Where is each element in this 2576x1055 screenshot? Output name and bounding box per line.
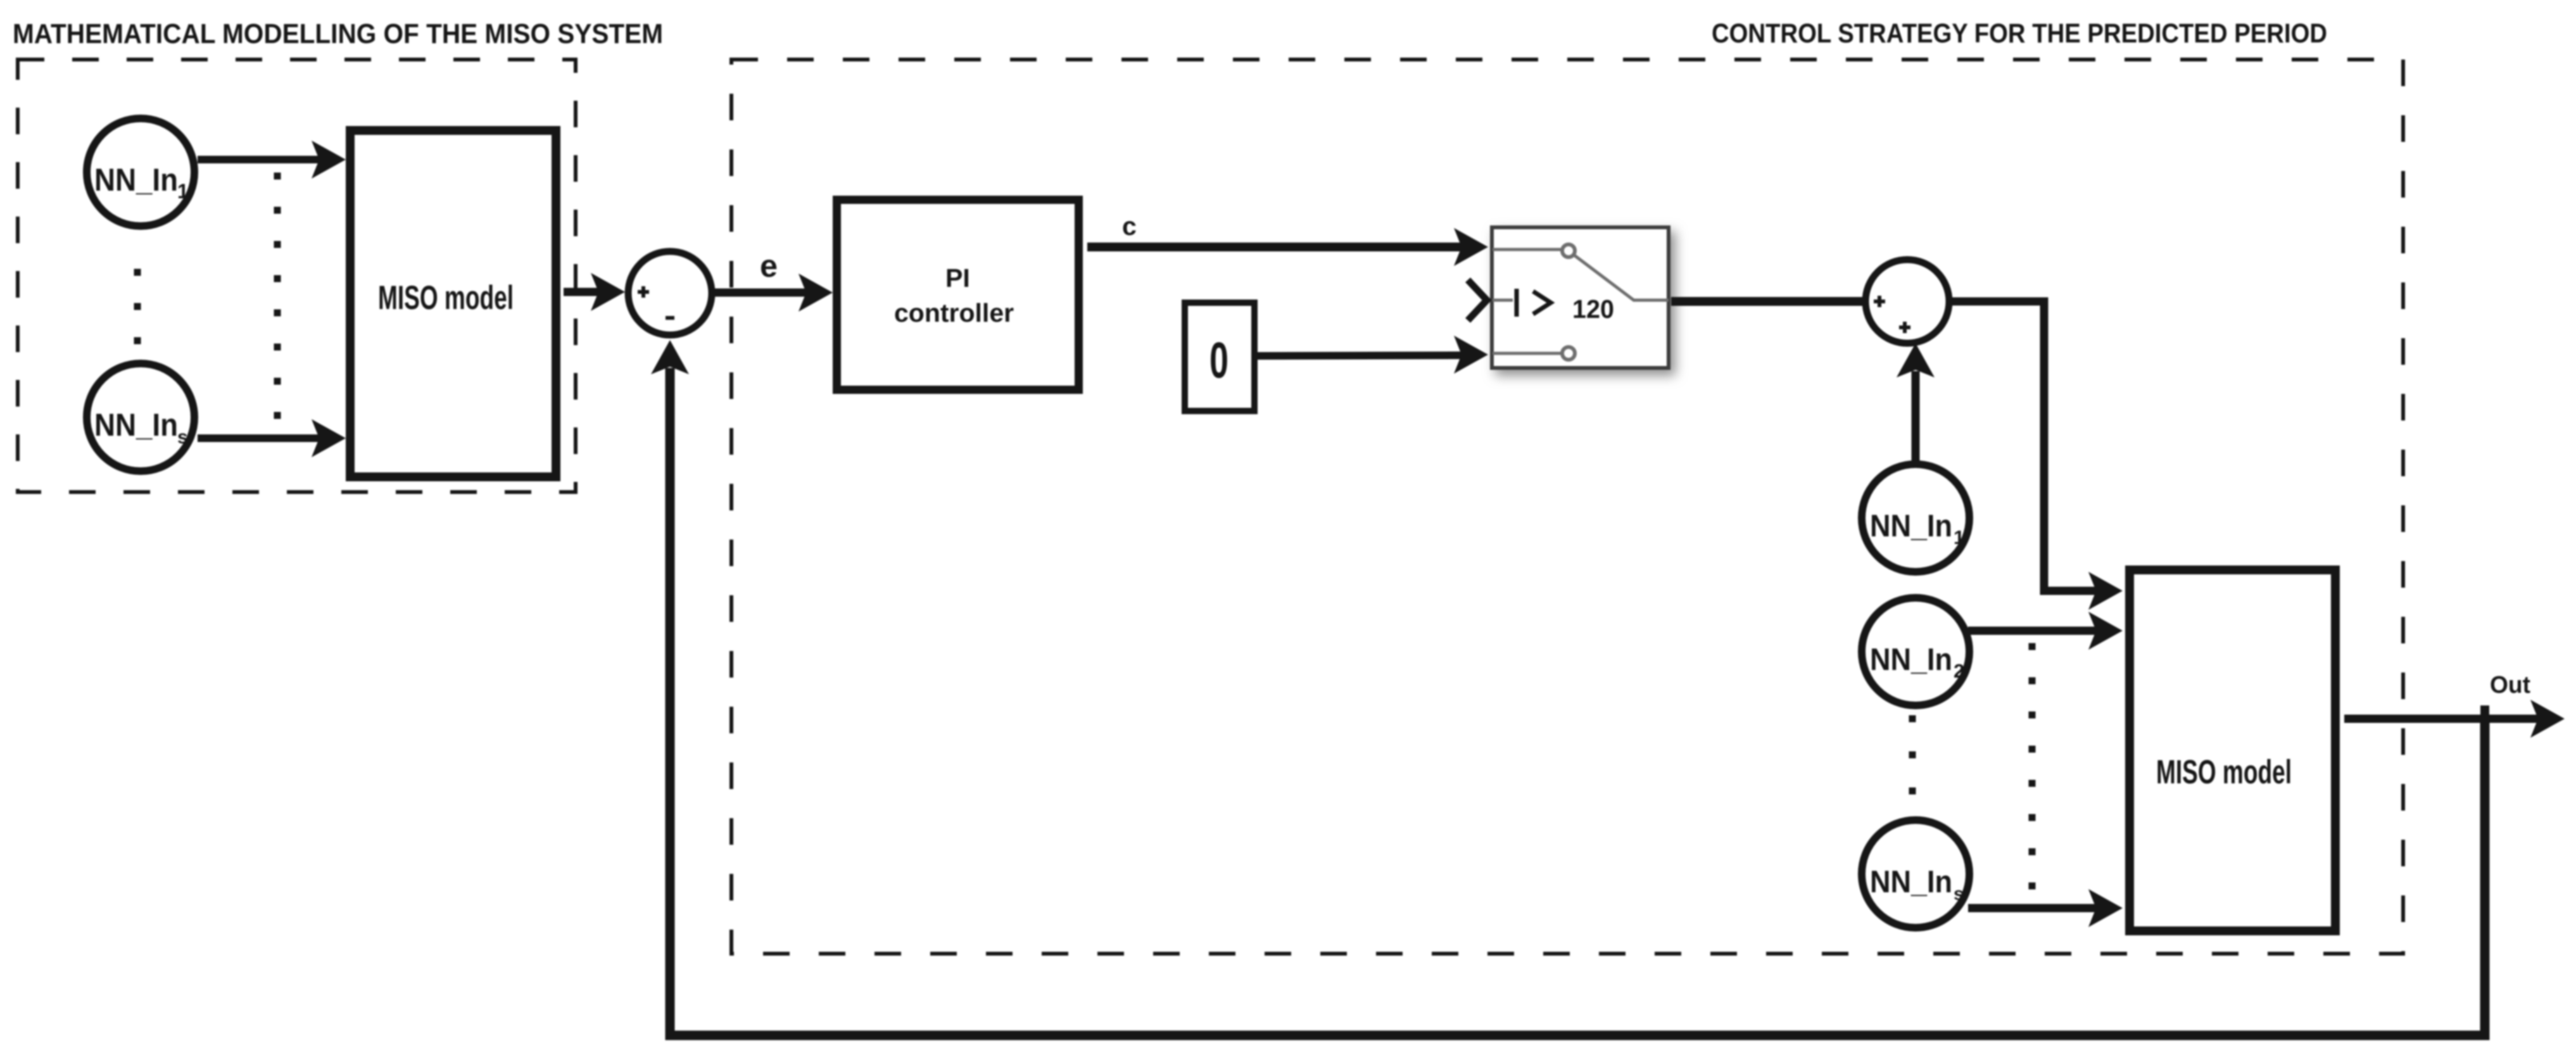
svg-text:MATHEMATICAL MODELLING OF THE: MATHEMATICAL MODELLING OF THE MISO SYSTE… bbox=[13, 18, 663, 49]
wire: summing junction 2 output to MISO model (right) input 1 bbox=[1949, 301, 2104, 591]
wire c: PI controller to switch input 1 bbox=[1087, 243, 1469, 251]
switch greater-than symbol bbox=[1533, 291, 1551, 314]
switch port line input 1 bbox=[1493, 248, 1562, 251]
dashed boundary box: control strategy subsystem bbox=[731, 60, 2403, 954]
block: PI controller bbox=[837, 200, 1079, 390]
node NN_Ins (left input circle) bbox=[87, 363, 194, 471]
switch control stub bbox=[1493, 299, 1513, 302]
svg-text:MISO model: MISO model bbox=[2156, 754, 2292, 791]
switch control chevron bbox=[1468, 280, 1487, 320]
svg-text:c: c bbox=[1122, 212, 1137, 241]
svg-text:0: 0 bbox=[1209, 332, 1228, 388]
wire e: summing junction 1 to PI controller bbox=[712, 289, 814, 297]
switch port knob input 3 bbox=[1562, 347, 1575, 360]
arrowhead into switch input 1 bbox=[1454, 228, 1488, 266]
dashed boundary box: mathematical modelling subsystem bbox=[18, 60, 576, 492]
svg-text:NN_In: NN_In bbox=[1870, 643, 1952, 677]
svg-text:Out: Out bbox=[2490, 672, 2530, 698]
svg-text:CONTROL STRATEGY FOR THE PREDI: CONTROL STRATEGY FOR THE PREDICTED PERIO… bbox=[1712, 18, 2327, 49]
svg-text:1: 1 bbox=[1954, 526, 1964, 548]
block: constant 0 bbox=[1185, 303, 1254, 411]
svg-text:NN_In: NN_In bbox=[94, 162, 178, 198]
wire: switch output to summing junction 2 bbox=[1671, 297, 1867, 306]
summing junction 2 (+/+) bbox=[1866, 260, 1949, 343]
svg-text:NN_In: NN_In bbox=[94, 407, 178, 443]
wire: MISO model (right) output bbox=[2344, 715, 2539, 723]
junction tick on output wire bbox=[2480, 705, 2489, 723]
svg-text:s: s bbox=[1954, 884, 1964, 904]
block: MISO model (left) bbox=[350, 130, 556, 477]
svg-text:PI: PI bbox=[945, 263, 970, 293]
wire NN_Ins to MISO model (left) bbox=[198, 434, 327, 442]
svg-text:NN_In: NN_In bbox=[1870, 865, 1952, 899]
node NN_In2 (right input circle) bbox=[1862, 598, 1969, 705]
wire NN_In1 to MISO model (left) bbox=[198, 156, 327, 163]
arrowhead Out bbox=[2530, 700, 2565, 738]
wire: constant 0 to switch input 3 bbox=[1256, 355, 1468, 356]
arrowhead into MISO model input 2 (left) bbox=[312, 419, 346, 457]
node NN_In1 (right input circle) bbox=[1862, 464, 1969, 572]
svg-text:2: 2 bbox=[1954, 660, 1964, 682]
arrowhead into summing junction 1 (plus input) bbox=[591, 273, 625, 311]
arrowhead into MISO model (right) input 2 bbox=[2088, 612, 2123, 650]
arrowhead into PI controller bbox=[799, 274, 833, 312]
arrowhead up into summing junction 1 (minus input) bbox=[651, 340, 689, 374]
ellipsis dots between left input circles bbox=[134, 269, 141, 344]
ellipsis dots between right input circles bbox=[1909, 716, 1916, 795]
arrowhead up into summing junction 2 bbox=[1897, 343, 1935, 377]
switch threshold tick bbox=[1515, 289, 1519, 317]
switch commutator diagonal bbox=[1574, 255, 1669, 300]
arrowhead into MISO model (right) input 1 bbox=[2088, 572, 2123, 610]
switch port knob input 1 bbox=[1562, 244, 1575, 257]
summing junction 1 (+/-) bbox=[628, 251, 712, 335]
arrowhead into MISO model (right) input 3 bbox=[2088, 889, 2123, 927]
block: switch (threshold > 120) bbox=[1468, 227, 1669, 368]
wire MISO model (left) output to summing junction 1 bbox=[564, 288, 606, 296]
switch port line input 3 bbox=[1493, 352, 1562, 355]
wire NN_In2 to MISO model (right) bbox=[1968, 627, 2104, 635]
svg-text:controller: controller bbox=[894, 298, 1014, 327]
wire: feedback from output junction down, across bottom and up to summing junction 1 bbox=[670, 368, 2485, 1035]
wire: NN_In1 (right) up to summing junction 2 bbox=[1912, 371, 1920, 463]
svg-text:120: 120 bbox=[1572, 294, 1614, 324]
svg-text:e: e bbox=[760, 248, 778, 284]
node NN_In1 (left input circle) bbox=[87, 118, 194, 226]
svg-text:NN_In: NN_In bbox=[1870, 509, 1952, 543]
wire NN_Ins to MISO model (right) bbox=[1968, 904, 2104, 913]
svg-text:s: s bbox=[177, 427, 188, 448]
svg-text:MISO model: MISO model bbox=[378, 279, 514, 317]
node NN_Ins (right input circle) bbox=[1862, 820, 1969, 928]
block: MISO model (right) bbox=[2130, 570, 2335, 931]
dotted line: right input bus ellipsis bbox=[2029, 643, 2036, 890]
dotted line: left input bus ellipsis bbox=[274, 173, 281, 419]
arrowhead into MISO model input 1 (left) bbox=[312, 141, 346, 179]
svg-text:1: 1 bbox=[177, 180, 189, 203]
arrowhead into switch input 3 bbox=[1454, 336, 1488, 374]
